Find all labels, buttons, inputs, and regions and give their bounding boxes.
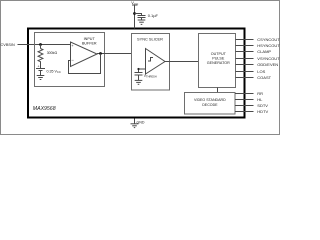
svg-text:GND: GND: [137, 120, 145, 124]
ground bias: [37, 76, 45, 80]
svg-text:CSYNCOUT: CSYNCOUT: [257, 37, 280, 42]
wire VCC down: [134, 5, 136, 29]
wire to bypass cap: [135, 14, 142, 16]
wire OPG to decoder: [217, 88, 219, 93]
svg-text:SDTV: SDTV: [257, 103, 268, 108]
node buffer output: [99, 52, 102, 55]
pin RR: [235, 93, 254, 95]
hysteresis symbol: [148, 58, 153, 62]
svg-text:HSYNCOUT: HSYNCOUT: [257, 43, 280, 48]
wire feedback: [69, 54, 101, 74]
svg-text:INPUT: INPUT: [84, 37, 96, 41]
svg-text:MAX9568: MAX9568: [33, 106, 56, 112]
svg-text:HL: HL: [257, 97, 263, 102]
svg-text:CVBSIN: CVBSIN: [1, 43, 15, 47]
node VCC junction: [133, 12, 136, 15]
svg-text:COAST: COAST: [257, 75, 271, 80]
svg-text:CLAMP: CLAMP: [257, 49, 271, 54]
comparator sync slicer: [146, 49, 166, 75]
pin COAST: [236, 77, 254, 79]
svg-text:ODD/EVEN: ODD/EVEN: [257, 62, 278, 67]
ground threshold: [135, 80, 143, 84]
node input junction: [39, 43, 42, 46]
pin LOS: [236, 71, 254, 73]
resistor R1 300k: [38, 49, 43, 64]
output pulse generator block: [199, 34, 236, 88]
capacitor C1 0.1uF: [138, 16, 146, 21]
svg-text:0.35 VCC: 0.35 VCC: [47, 69, 61, 74]
ground GND pin: [131, 124, 139, 128]
pin VSYNCOUT: [236, 58, 254, 60]
VCC power symbol: [132, 4, 138, 6]
ground bypass: [138, 20, 146, 24]
svg-text:VIDEO STANDARD: VIDEO STANDARD: [194, 98, 226, 102]
border frame: [1, 1, 280, 135]
svg-text:0.1µF: 0.1µF: [148, 13, 159, 18]
wire slicer output: [165, 61, 199, 63]
wire input: [18, 44, 71, 46]
wire GND stub: [134, 119, 136, 124]
pin HL: [235, 99, 254, 101]
svg-text:HDTV: HDTV: [257, 109, 268, 114]
svg-text:OUTPUT: OUTPUT: [211, 52, 227, 56]
sync slicer block: [132, 34, 170, 91]
svg-text:DECODE: DECODE: [202, 103, 218, 107]
svg-text:300kΩ: 300kΩ: [47, 51, 58, 55]
svg-text:SYNC SLICER: SYNC SLICER: [137, 36, 163, 41]
svg-text:LOS: LOS: [257, 69, 265, 74]
svg-text:BUFFER: BUFFER: [82, 42, 97, 46]
capacitor threshold: [135, 73, 143, 81]
pin SDTV: [235, 105, 254, 107]
svg-text:+: +: [38, 64, 40, 68]
svg-text:VTHRESH: VTHRESH: [144, 74, 157, 79]
svg-text:VCC: VCC: [131, 0, 139, 6]
svg-text:VSYNCOUT: VSYNCOUT: [257, 56, 280, 61]
wire to resistor: [40, 45, 42, 49]
video standard decode block: [185, 93, 236, 115]
source 0.35 VCC: [36, 64, 45, 76]
pin HSYNCOUT: [236, 45, 254, 47]
pin CLAMP: [236, 51, 254, 53]
chip outline U1 MAX9568: [28, 29, 245, 118]
svg-text:GENERATOR: GENERATOR: [207, 61, 230, 65]
wire op-amp output: [97, 53, 132, 55]
pin CSYNCOUT: [236, 39, 254, 41]
wire comparator minus input: [139, 69, 146, 73]
svg-text:PULSE: PULSE: [212, 56, 225, 60]
svg-text:RR: RR: [257, 91, 263, 96]
pin HDTV: [235, 111, 254, 113]
svg-text:−: −: [71, 57, 74, 62]
input buffer block: [35, 33, 105, 87]
op-amp A1 input buffer: [71, 42, 98, 67]
pin ODD/EVEN: [236, 64, 254, 66]
